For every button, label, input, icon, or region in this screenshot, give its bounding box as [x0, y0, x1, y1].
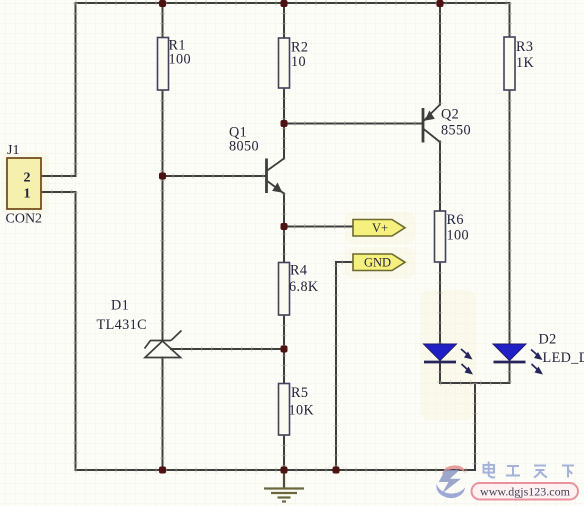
transistor Q1	[229, 125, 284, 194]
resistor R3	[504, 37, 534, 90]
wire R3 to LED2	[509, 90, 511, 344]
svg-text:D1: D1	[111, 298, 129, 314]
svg-text:CON2: CON2	[6, 212, 43, 227]
wire top rail	[76, 2, 510, 4]
svg-text:Q2: Q2	[441, 107, 459, 123]
wire J1 pin2 stub	[41, 175, 76, 177]
wire LED2 to bracket	[509, 361, 511, 383]
wire LED bracket	[440, 382, 510, 384]
node bottom GND wire	[333, 467, 340, 474]
node top R2	[281, 0, 288, 7]
wire R2 top	[283, 3, 285, 38]
svg-text:8050: 8050	[229, 139, 259, 155]
ground	[264, 470, 304, 502]
transistor Q2	[423, 105, 471, 143]
watermark	[436, 462, 578, 500]
wire R2 to Q1 collector	[283, 88, 285, 159]
svg-text:100: 100	[447, 228, 469, 244]
svg-text:100: 100	[169, 52, 191, 68]
power port V+	[353, 220, 405, 237]
svg-text:LED_D: LED_D	[543, 350, 584, 366]
svg-text:6.8K: 6.8K	[289, 279, 319, 295]
wire bracket tee down	[474, 383, 476, 470]
wire R5 to bottom rail	[283, 435, 285, 470]
connector J1	[6, 143, 43, 227]
svg-text:D2: D2	[539, 332, 557, 348]
resistor R2	[279, 38, 309, 88]
wire LED1 to bracket	[439, 361, 441, 383]
node top R1	[159, 0, 166, 7]
svg-text:R4: R4	[290, 263, 307, 279]
node bottom D1	[159, 467, 166, 474]
svg-text:8550: 8550	[441, 123, 471, 139]
wire Q1 base	[163, 175, 267, 177]
svg-text:GND: GND	[364, 256, 391, 270]
LED D2 right	[493, 332, 584, 375]
svg-text:TL431C: TL431C	[97, 317, 147, 333]
wire left rail lower	[75, 192, 77, 470]
node D1 ref	[281, 346, 288, 353]
wire Q1 emitter to R4	[283, 194, 285, 263]
svg-text:V+: V+	[372, 221, 388, 235]
wire Q2 base	[284, 123, 423, 125]
wire J1 pin1 stub	[41, 191, 76, 193]
soft jpeg-like warm halos	[1, 152, 476, 420]
node bottom R5	[281, 467, 288, 474]
svg-text:1K: 1K	[516, 55, 534, 71]
wire R4 to R5	[283, 315, 285, 384]
wire V+ stub	[284, 226, 353, 228]
wire R3 top	[509, 3, 511, 37]
resistor R1	[158, 38, 191, 91]
svg-text:J1: J1	[7, 143, 19, 158]
power port GND	[353, 254, 405, 271]
node Q1 base	[159, 173, 166, 180]
wire bottom rail	[76, 469, 476, 471]
svg-text:10: 10	[291, 54, 306, 70]
svg-text:R6: R6	[447, 212, 464, 228]
wire left rail upper	[75, 3, 77, 176]
node Q2 base	[281, 120, 288, 127]
node top Q2	[437, 0, 444, 7]
svg-text:10K: 10K	[289, 403, 315, 419]
wire R1 to D1	[162, 90, 164, 341]
svg-text:R3: R3	[516, 39, 533, 55]
resistor R5	[279, 384, 315, 436]
diode D1 TL431C	[97, 298, 182, 358]
wire GND stub	[336, 262, 353, 470]
node V+	[281, 223, 288, 230]
svg-text:www.dgjs123.com: www.dgjs123.com	[480, 485, 571, 499]
svg-text:R5: R5	[291, 385, 308, 401]
wire Q2 emitter vertical	[439, 3, 441, 105]
svg-text:1: 1	[24, 187, 31, 202]
wire Q2 collector to R6	[439, 142, 441, 212]
wire D1 ref	[171, 348, 284, 350]
LED D2 left	[424, 344, 474, 375]
grid tick crossings on wires	[41, 3, 510, 470]
wire R6 to LED1	[439, 262, 441, 344]
svg-text:2: 2	[24, 171, 31, 186]
wire D1 to bottom rail	[162, 358, 164, 471]
wire R1 top	[162, 3, 164, 38]
resistor R6	[435, 211, 469, 262]
resistor R4	[279, 263, 319, 316]
